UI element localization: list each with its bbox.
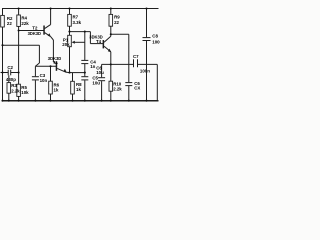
node C4 C5 junction bbox=[84, 72, 86, 74]
node ground C8 bbox=[145, 100, 147, 102]
svg-text:T2: T2 bbox=[32, 26, 38, 31]
transistor T1 bbox=[48, 56, 67, 73]
wire C8 top lead bbox=[146, 9, 148, 38]
svg-text:10u: 10u bbox=[96, 70, 104, 75]
wire R10 top lead bbox=[110, 64, 112, 81]
wire R9 top lead bbox=[110, 9, 112, 15]
wire C5 top lead bbox=[84, 73, 86, 77]
svg-text:100u: 100u bbox=[152, 40, 160, 45]
wire R6 top lead bbox=[50, 66, 52, 81]
capacitor C5 bbox=[81, 76, 100, 86]
wire T2 collector lead bbox=[50, 9, 52, 25]
node ground left line bbox=[1, 100, 3, 102]
wire output lead right of C7 bbox=[138, 63, 158, 65]
wire P1 bottom lead bbox=[69, 47, 71, 73]
node T1 base R6 junction bbox=[49, 65, 51, 67]
svg-text:10k: 10k bbox=[21, 90, 29, 95]
capacitor C4 bbox=[81, 60, 96, 69]
node top rail T2 collector junction bbox=[50, 7, 52, 9]
wire T4 base lead bbox=[90, 43, 103, 45]
node top rail R7 junction bbox=[68, 7, 70, 9]
wire C4 bottom lead bbox=[84, 64, 86, 73]
wire top supply rail bbox=[2, 8, 159, 10]
wire T1 emitter link bbox=[66, 71, 69, 73]
node T4 emitter junction bbox=[110, 63, 112, 65]
wire T2 emitter to T1 collector bbox=[51, 37, 54, 40]
wire P1 wiper column bbox=[84, 32, 86, 60]
transistor T2 bbox=[28, 25, 51, 37]
svg-text:R9: R9 bbox=[114, 15, 120, 20]
wire C3 bottom lead bbox=[34, 80, 36, 100]
wire R7 bottom lead bbox=[69, 26, 71, 35]
wire R5 bottom lead bbox=[18, 96, 20, 100]
capacitor C6 emitter bypass bbox=[96, 65, 105, 80]
svg-text:1k: 1k bbox=[76, 87, 81, 92]
node ground R3 bbox=[8, 100, 10, 102]
capacitor C7 bbox=[133, 54, 150, 74]
node wiper column junction bbox=[84, 31, 86, 33]
svg-text:100n: 100n bbox=[140, 68, 150, 73]
wire left vertical branch bbox=[2, 9, 4, 101]
svg-text:2.2k: 2.2k bbox=[11, 88, 20, 93]
node T4 collector R9 junction bbox=[110, 33, 112, 35]
resistor R10 bbox=[109, 81, 122, 91]
svg-text:C8: C8 bbox=[152, 34, 158, 39]
wire R4-R5 divider column bbox=[18, 26, 20, 84]
svg-text:20k: 20k bbox=[62, 42, 70, 47]
wire CX bottom lead bbox=[128, 86, 130, 101]
node ground C6 bbox=[101, 100, 103, 102]
node ground R8 bbox=[71, 100, 73, 102]
wire bottom ground rail bbox=[2, 100, 159, 102]
transistor T4 bbox=[89, 35, 111, 53]
svg-text:22: 22 bbox=[114, 20, 119, 25]
node T1 emitter P1 junction bbox=[68, 72, 70, 74]
node ground R5 bbox=[18, 100, 20, 102]
node ground CX bbox=[128, 100, 130, 102]
wire R4 top lead bbox=[18, 9, 20, 16]
node ground R10 bbox=[110, 100, 112, 102]
wire C2 right lead bbox=[11, 72, 19, 74]
node left line branch junction bbox=[1, 44, 3, 46]
svg-text:C7: C7 bbox=[133, 54, 139, 59]
resistor R2 bbox=[1, 15, 13, 27]
node ground C3 bbox=[34, 100, 36, 102]
svg-text:22: 22 bbox=[7, 21, 12, 26]
resistor R6 bbox=[49, 81, 60, 94]
svg-text:R7: R7 bbox=[73, 15, 79, 20]
node ground R6 bbox=[49, 100, 51, 102]
svg-text:10n: 10n bbox=[40, 78, 48, 83]
wire C2 left lead bbox=[1, 72, 8, 74]
resistor R4 bbox=[17, 15, 29, 26]
resistor R9 bbox=[109, 14, 120, 26]
wire R9 bottom lead bbox=[110, 26, 112, 36]
node top rail R4 junction bbox=[18, 7, 20, 9]
svg-text:C2: C2 bbox=[7, 65, 13, 70]
potentiometer P1 bbox=[62, 35, 85, 47]
capacitor C8 bbox=[143, 34, 163, 45]
wire R8 top lead bbox=[72, 73, 74, 82]
svg-text:CX: CX bbox=[134, 86, 140, 91]
resistor R8 bbox=[71, 81, 82, 94]
wire T4 collector output horizontal bbox=[111, 33, 129, 35]
wire feedback node horizontal bbox=[70, 31, 91, 33]
resistor R7 bbox=[68, 14, 82, 26]
svg-text:1k: 1k bbox=[54, 88, 59, 93]
wire T1 base column jog bbox=[35, 63, 39, 66]
resistor R3 bbox=[7, 83, 20, 94]
capacitor C2 bbox=[6, 65, 16, 82]
resistor R5 bbox=[17, 84, 29, 96]
svg-text:3DK3D: 3DK3D bbox=[28, 31, 41, 36]
wire R6 bottom lead bbox=[50, 94, 52, 101]
wire R3 top lead bbox=[8, 75, 10, 82]
wire R7 top lead bbox=[69, 9, 71, 15]
node R7 bottom junction bbox=[68, 31, 70, 33]
wire C5 bottom lead bbox=[84, 80, 86, 100]
wire T4 base corner vertical bbox=[89, 32, 91, 44]
wire T4 emitter lead bbox=[110, 52, 112, 65]
svg-text:2.2k: 2.2k bbox=[113, 87, 122, 92]
capacitor C6 CX bbox=[125, 81, 140, 90]
node top rail R9 junction bbox=[110, 7, 112, 9]
node C2 divider junction bbox=[18, 71, 20, 73]
wire T1 base column bbox=[38, 45, 40, 63]
node T2 base divider junction bbox=[18, 29, 20, 31]
wire T1 base lead bbox=[35, 65, 56, 67]
node ground C5 bbox=[84, 100, 86, 102]
wire C6 top lead bbox=[101, 64, 103, 77]
svg-text:T1: T1 bbox=[53, 60, 59, 65]
svg-text:R4: R4 bbox=[21, 15, 27, 20]
wire T2 base lead bbox=[19, 30, 44, 32]
wire C3 top lead bbox=[34, 66, 36, 76]
svg-text:22k: 22k bbox=[21, 21, 29, 26]
svg-text:1n: 1n bbox=[90, 64, 95, 69]
wire T1 emitter node horizontal bbox=[70, 72, 85, 74]
node left line C2 junction bbox=[1, 71, 3, 73]
svg-text:T4: T4 bbox=[96, 39, 102, 44]
node top rail C8 junction bbox=[145, 7, 147, 9]
wire R10 bottom lead bbox=[110, 91, 112, 101]
wire C6 bottom lead bbox=[101, 81, 103, 101]
wire R8 bottom lead bbox=[72, 94, 74, 101]
wire horizontal branch from left line bbox=[3, 44, 40, 46]
wire CX column vertical bbox=[128, 34, 130, 82]
svg-text:3.3k: 3.3k bbox=[73, 20, 82, 25]
capacitor C3 bbox=[32, 73, 48, 83]
wire R3 bottom lead bbox=[8, 93, 10, 101]
svg-text:430p: 430p bbox=[6, 77, 16, 82]
wire right edge vertical bbox=[156, 64, 158, 100]
wire T4 emitter node horizontal bbox=[102, 63, 134, 65]
wire C8 bottom lead bbox=[146, 41, 148, 101]
